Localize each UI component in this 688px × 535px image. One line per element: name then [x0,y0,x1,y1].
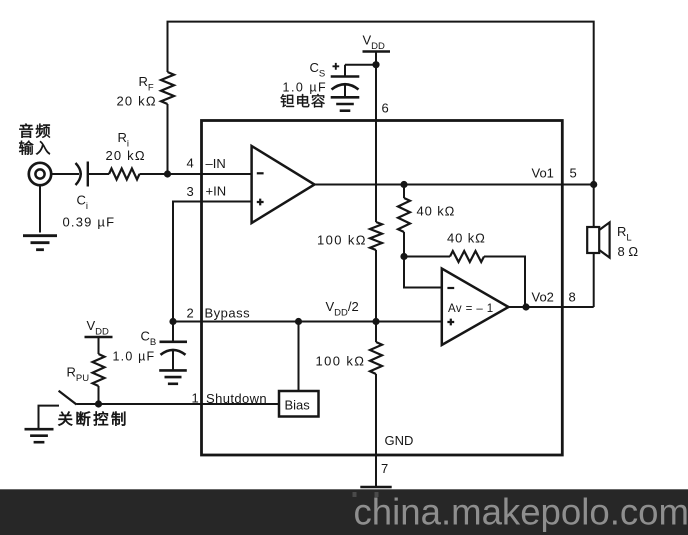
U2 minus input mark [447,287,454,289]
svg-text:1.0 µF: 1.0 µF [113,350,156,364]
node: Vo2 output junction [522,303,529,310]
node: bypass/bias junction [295,318,302,325]
svg-text:8: 8 [569,290,576,305]
wire: VDD rail pin6 down to 100k R3 [375,52,377,223]
resistor Ri 20k (horizontal, input) [109,169,140,180]
CS plus polarity mark [333,63,340,70]
node: VDD-CS junction [372,61,379,68]
svg-text:Bias: Bias [285,398,311,413]
resistor RF 20k (vertical, top-left) [161,72,174,104]
IC amplifier block outline [202,121,563,456]
wire: feedback node to 40k R6 and to Vo2 [404,257,525,308]
ground (CB) [159,369,187,372]
label: shutdown control (Chinese) [58,412,72,426]
svg-text:Shutdown: Shutdown [206,391,267,406]
svg-text:–IN: –IN [206,156,226,171]
wire: bypass line pin2 to op-amp U2 +input [173,321,442,323]
svg-text:100 kΩ: 100 kΩ [317,233,367,248]
svg-text:0.39 µF: 0.39 µF [63,215,116,230]
svg-text:5: 5 [570,166,577,181]
node: Vo1/pin5/speaker junction [590,181,597,188]
svg-text:1: 1 [192,391,199,406]
svg-text:4: 4 [187,156,194,171]
label: tantalum capacitor (Chinese) [280,94,294,107]
svg-text:china.makepolo.com: china.makepolo.com [354,492,688,533]
ground (input jack) [23,234,57,237]
op-amp U2 (Av=-1 inverter) [442,269,509,346]
wire: CB lead [172,322,174,371]
svg-text:40 kΩ: 40 kΩ [447,231,486,246]
wire: Vo1 node down to speaker RL [593,185,595,228]
svg-text:8 Ω: 8 Ω [618,244,639,259]
node: feedback 40k junction [400,253,407,260]
node: input/RF/RI junction [164,170,171,177]
capacitor Ci 0.39uF curved plate [76,163,81,185]
svg-text:100 kΩ: 100 kΩ [316,354,366,369]
svg-text:40 kΩ: 40 kΩ [417,204,456,219]
wire: input jack to ground [39,185,41,232]
capacitor Ci straight plate [87,162,89,187]
resistor RPU pull-up [93,354,105,386]
wire: op-amp U1 output to Vo1 pin5 [315,184,594,186]
wire: 40k R5 to feedback node [403,232,405,257]
op-amp U1 [252,146,315,223]
wire: RF bottom lead to input node [167,104,169,174]
power VDD bar (left, above RPU) [85,336,113,339]
capacitor CS curved plate [332,84,359,89]
svg-text:Av = – 1: Av = – 1 [448,303,494,315]
capacitor CS straight plate [331,75,360,78]
svg-text:7: 7 [381,461,388,476]
input jack J1 [29,163,51,185]
speaker RL 8ohm [587,222,609,257]
wire: VDD/2 node to 100k R4 [375,322,377,343]
wire: feedback RF-top to Vo1 (top rail and right drop) [168,22,594,185]
svg-text:3: 3 [187,184,194,199]
wire: speaker RL to Vo2 rail [593,253,595,307]
wire: 100k R4 to GND pin7 and ground [375,374,377,488]
Bias block [279,391,319,417]
wire: switch left contact to ground [39,406,60,429]
U1 plus input mark [257,199,264,206]
resistor R6 40k (feedback to Vo2) [450,251,484,262]
watermark ground bar remnants [353,492,357,497]
resistor R3 100k (VDD to VDD/2) [370,222,382,250]
U1 minus input mark [257,172,264,174]
wire: shutdown pin1 line [77,403,280,405]
node: Vo1/40k junction [400,181,407,188]
capacitor CB straight plate [160,340,188,343]
svg-text:2: 2 [187,306,194,321]
ground (CS) [331,96,360,99]
svg-text:GND: GND [385,433,414,448]
switch SW1 (shutdown control) [59,391,77,405]
wire: +IN pin3 down to bypass node [173,202,252,322]
svg-text:20 kΩ: 20 kΩ [117,94,157,109]
svg-text:20 kΩ: 20 kΩ [106,148,146,163]
node: RPU/shutdown junction [95,400,102,407]
ground (GND pin7, partly under watermark) [360,486,391,489]
wire: CS to ground [344,85,346,98]
svg-text:Vo1: Vo1 [532,166,554,181]
wire: Ci to Ri to -IN pin4 [88,173,252,175]
wire: RPU bottom lead to shutdown node [98,386,100,404]
node: bypass/CB junction [169,318,176,325]
wire: U2 output Vo2 pin8 to speaker rail [509,306,594,308]
power VDD bar (top, above CS) [363,50,391,53]
resistor R4 100k (VDD/2 to GND) [370,342,382,374]
node: VDD/2 junction [372,318,379,325]
watermark band [0,489,688,535]
svg-text:6: 6 [382,101,389,116]
wire: bias box to bypass line [298,322,300,392]
wire: feedback node to U2 -input [404,257,442,288]
U2 plus input mark [447,319,454,326]
wire: RPU top lead from VDD [98,337,100,354]
label: audio input (Chinese) [19,124,33,138]
svg-text:+IN: +IN [206,184,227,199]
wire: input jack to Ci [51,173,79,175]
wire: 100k R3 to bypass VDD/2 node [375,250,377,322]
svg-text:Bypass: Bypass [205,306,251,321]
wire: Vo1 node to 40k R5 [403,185,405,199]
resistor R5 40k (Vo1 to feedback node) [398,198,410,232]
capacitor CB curved plate [161,350,186,355]
ground (shutdown switch) [25,428,54,431]
wire: CS tap to VDD node [345,65,376,77]
svg-text:1.0 µF: 1.0 µF [283,81,328,95]
svg-text:Vo2: Vo2 [532,290,554,305]
